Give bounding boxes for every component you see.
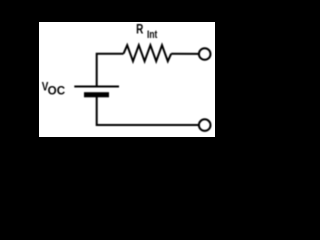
bottom output terminal (open circle) [199, 119, 211, 131]
svg-text:R: R [136, 22, 143, 37]
svg-text:OC: OC [48, 86, 65, 98]
resistor R_Int zigzag body [124, 45, 172, 61]
wire: battery negative terminal down and right to bottom terminal [97, 97, 198, 126]
battery V_OC thick (negative) plate [84, 92, 109, 97]
battery V_OC thin (positive) plate [74, 86, 119, 88]
wire: resistor to top terminal [171, 53, 198, 55]
svg-text:Int: Int [147, 29, 157, 41]
top output terminal (open circle) [199, 48, 211, 60]
white schematic panel [39, 22, 215, 137]
wire: battery positive terminal up and right to resistor [97, 54, 124, 88]
